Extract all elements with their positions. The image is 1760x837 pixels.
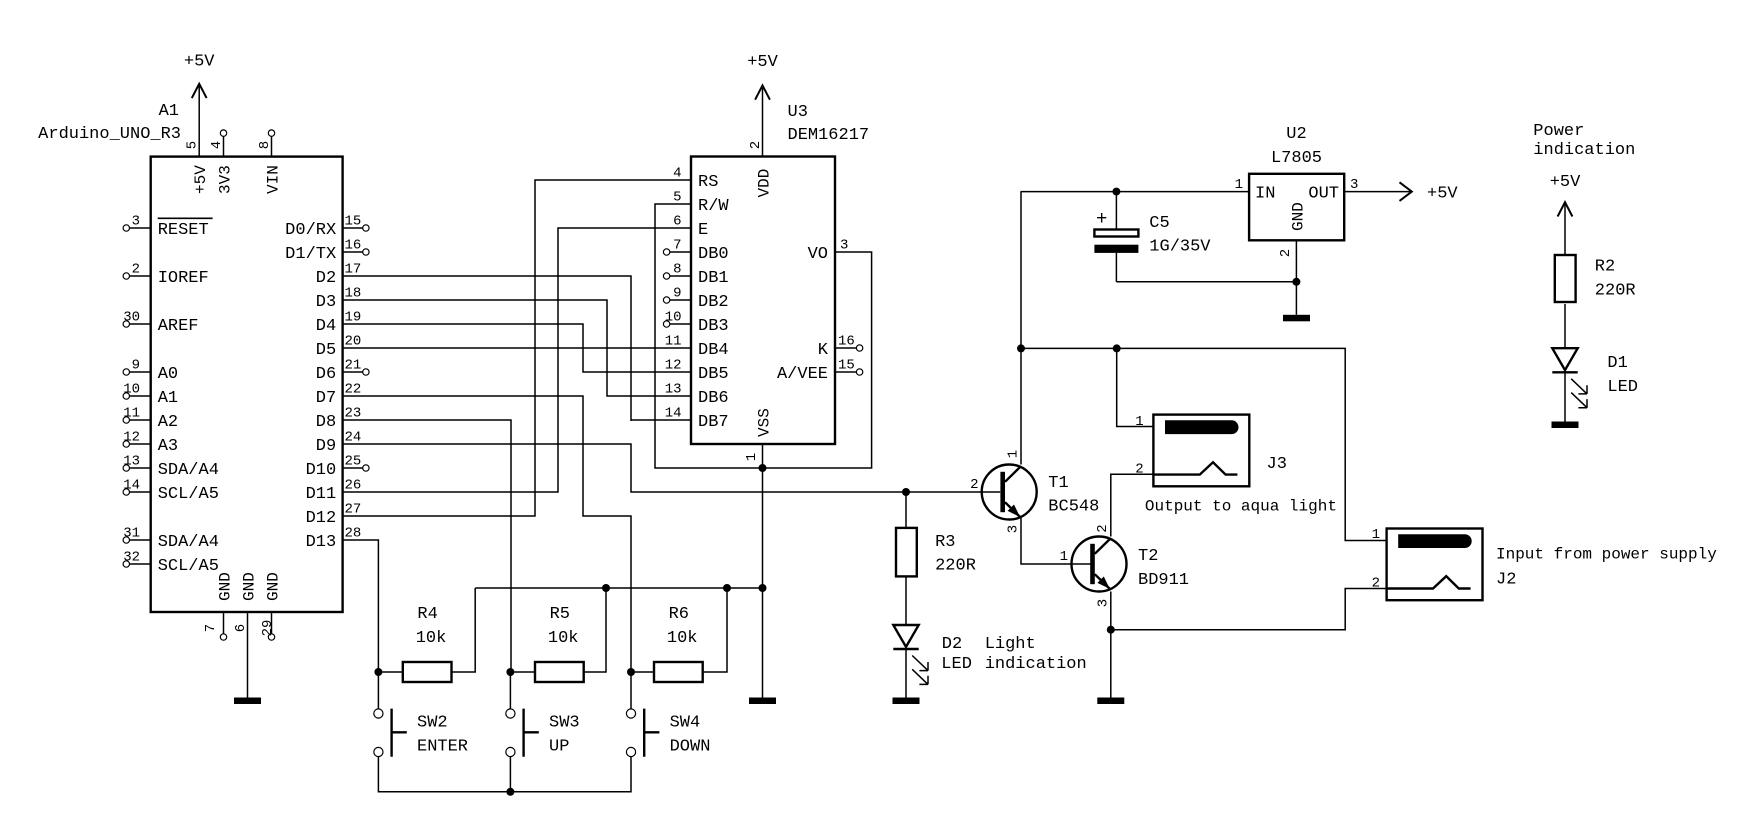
svg-text:D0/RX: D0/RX	[285, 221, 336, 240]
svg-text:8: 8	[673, 262, 681, 278]
resistor R3 220R	[896, 528, 976, 577]
junction switch common	[506, 788, 514, 796]
svg-text:GND: GND	[217, 572, 235, 601]
pin 5 +5V (top)	[185, 141, 211, 194]
U3 pin 16 K (right stub)	[818, 334, 863, 360]
svg-text:29: 29	[260, 620, 276, 637]
svg-text:D8: D8	[316, 413, 336, 432]
svg-text:T1: T1	[1048, 474, 1068, 493]
wire D12 to U3 RS	[343, 180, 691, 516]
svg-text:C5: C5	[1149, 214, 1169, 233]
svg-text:30: 30	[123, 310, 140, 326]
wire D2 to U3 DB7	[343, 276, 691, 421]
svg-text:9: 9	[132, 358, 140, 374]
wire D2 to ground	[905, 649, 907, 698]
U3 pin 10 DB3 (left)	[663, 310, 728, 336]
svg-text:16: 16	[838, 334, 855, 350]
A1 pin 26 D11 (right)	[306, 478, 362, 504]
resistor R4 10k	[403, 605, 452, 682]
U3 pin 6 E (left)	[673, 214, 708, 240]
svg-text:32: 32	[123, 550, 140, 566]
A1 pin 3 RESET (left stub)	[123, 214, 213, 240]
svg-text:A3: A3	[158, 437, 178, 456]
transistor T1 BC548	[982, 465, 1100, 520]
wire input line to J2 pin 1	[1021, 348, 1387, 540]
svg-text:10: 10	[123, 382, 140, 398]
ground symbol under U3 VSS	[749, 698, 776, 705]
svg-text:VO: VO	[808, 245, 828, 264]
svg-text:+: +	[1096, 208, 1107, 230]
wire input line to U2 IN	[1021, 191, 1250, 193]
wire U2 OUT to +5V	[1344, 191, 1411, 193]
svg-text:2: 2	[1095, 524, 1111, 532]
U3 pin 4 RS (left)	[673, 166, 718, 192]
wire U3 VSS to ground	[762, 444, 764, 698]
A1 pin 13 SDA/A4 (left stub)	[123, 454, 219, 480]
svg-text:14: 14	[123, 478, 140, 494]
wire R3 to D2	[905, 576, 907, 625]
junction D7/R6/SW4	[627, 668, 635, 676]
svg-text:BC548: BC548	[1048, 497, 1099, 516]
svg-text:A/VEE: A/VEE	[777, 365, 828, 384]
svg-text:6: 6	[233, 624, 249, 632]
svg-text:220R: 220R	[935, 556, 976, 575]
IC U3 DEM16217 body	[691, 157, 835, 445]
ground symbol under U2	[1283, 315, 1310, 322]
svg-text:L7805: L7805	[1271, 149, 1322, 168]
svg-text:3: 3	[1096, 599, 1112, 607]
junction D8/R5/SW3	[506, 668, 514, 676]
svg-text:7: 7	[203, 624, 219, 632]
ground symbol under T2	[1097, 698, 1124, 705]
+5V output arrow	[1400, 182, 1459, 203]
A1 pin 6 GND (bottom)	[233, 572, 259, 632]
junction U2 GND/C5	[1292, 278, 1300, 286]
svg-text:2: 2	[1278, 249, 1294, 257]
svg-text:VSS: VSS	[756, 408, 774, 437]
U3 pin 2 VDD (top)	[748, 141, 774, 198]
svg-text:10: 10	[665, 310, 682, 326]
svg-text:D6: D6	[316, 365, 336, 384]
switch SW4 DOWN	[626, 709, 710, 757]
junction J3 branch	[1113, 344, 1121, 352]
svg-text:IOREF: IOREF	[158, 269, 209, 288]
svg-text:8: 8	[257, 141, 273, 149]
svg-text:E: E	[698, 221, 708, 240]
svg-text:indication: indication	[1533, 141, 1635, 160]
svg-text:D9: D9	[316, 437, 336, 456]
wire D8 to R5/SW3	[343, 420, 511, 672]
wire D4 to U3 DB5	[343, 324, 691, 372]
svg-text:12: 12	[665, 358, 682, 374]
wire ground rail above resistors	[475, 587, 762, 589]
junction input line branch	[1017, 344, 1025, 352]
svg-text:22: 22	[345, 382, 362, 398]
U3 pin 13 DB6 (left)	[665, 382, 729, 408]
svg-text:J3: J3	[1267, 455, 1287, 474]
A1 pin 9 A0 (left stub)	[123, 358, 178, 384]
svg-text:SCL/A5: SCL/A5	[158, 485, 219, 504]
svg-text:1: 1	[1235, 177, 1243, 193]
svg-text:1: 1	[1135, 414, 1143, 430]
svg-text:19: 19	[345, 310, 362, 326]
svg-text:D12: D12	[306, 509, 337, 528]
wire SW2 top	[377, 672, 379, 709]
svg-text:K: K	[818, 341, 829, 360]
svg-text:17: 17	[345, 262, 362, 278]
resistor R5 10k	[535, 605, 584, 682]
U2 pin 1 IN	[1235, 177, 1276, 203]
svg-text:Arduino_UNO_R3: Arduino_UNO_R3	[38, 125, 181, 144]
A1 pin 22 D7 (right)	[316, 382, 362, 408]
U3 pin 11 DB4 (left)	[665, 334, 729, 360]
svg-text:5: 5	[185, 141, 201, 149]
A1 pin 7 GND (bottom stub)	[203, 572, 235, 640]
svg-text:13: 13	[123, 454, 140, 470]
ground symbol under A1	[234, 698, 261, 705]
U3 pin 8 DB1 (left)	[663, 262, 728, 288]
LED D2	[893, 625, 972, 684]
svg-text:+5V: +5V	[192, 165, 210, 194]
wire R2 to D1	[1564, 304, 1566, 348]
svg-text:Light: Light	[985, 635, 1036, 654]
U3 pin 1 VSS (bottom)	[744, 408, 774, 461]
wire T1 emitter to T2 base	[1021, 518, 1091, 564]
svg-text:1: 1	[744, 453, 760, 461]
svg-text:20: 20	[345, 334, 362, 350]
svg-text:R5: R5	[550, 605, 570, 624]
svg-text:D4: D4	[316, 317, 336, 336]
wire D9 to T1 base	[343, 444, 1001, 492]
svg-text:GND: GND	[241, 572, 259, 601]
wire J3 pin1 to input line	[1117, 348, 1154, 426]
wire SW3 top	[509, 672, 511, 709]
svg-text:OUT: OUT	[1308, 184, 1339, 203]
svg-text:D11: D11	[306, 485, 337, 504]
svg-text:R4: R4	[417, 605, 437, 624]
svg-text:U2: U2	[1286, 125, 1306, 144]
svg-text:A2: A2	[158, 413, 178, 432]
A1 pin 17 D2 (right)	[316, 262, 362, 288]
pin 8 VIN (top stub)	[257, 130, 283, 194]
U2 pin 2 GND	[1278, 202, 1308, 257]
wire C5 bottom to U2 GND	[1116, 281, 1296, 283]
svg-text:18: 18	[345, 286, 362, 302]
A1 pin 14 SCL/A5 (left stub)	[123, 478, 219, 504]
wire R6 right up to ground rail	[703, 588, 727, 672]
svg-text:13: 13	[665, 382, 682, 398]
svg-text:DEM16217: DEM16217	[788, 126, 870, 145]
U3 pin 7 DB0 (left)	[663, 238, 728, 264]
A1 pin 32 SCL/A5 (left stub)	[123, 550, 219, 576]
junction C5/input line	[1112, 188, 1120, 196]
svg-text:DB0: DB0	[698, 245, 729, 264]
svg-text:R3: R3	[935, 533, 955, 552]
svg-text:DB3: DB3	[698, 317, 729, 336]
svg-text:1G/35V: 1G/35V	[1149, 238, 1211, 257]
svg-text:SW3: SW3	[549, 713, 580, 732]
svg-text:3V3: 3V3	[217, 165, 235, 194]
wire R5 left	[510, 671, 535, 673]
svg-text:15: 15	[345, 214, 362, 230]
wire SW2 bottom to common	[378, 757, 510, 792]
svg-text:+5V: +5V	[747, 53, 778, 72]
svg-text:3: 3	[132, 214, 140, 230]
regulator U2 L7805 body	[1249, 174, 1344, 241]
wire T1 collector up to input line	[1020, 192, 1022, 465]
svg-text:25: 25	[345, 454, 362, 470]
U3 pin 14 DB7 (left)	[665, 406, 729, 432]
A1 pin 15 D0/RX (right)	[285, 214, 369, 240]
svg-text:R6: R6	[669, 605, 689, 624]
svg-text:11: 11	[665, 334, 682, 350]
svg-text:2: 2	[132, 262, 140, 278]
svg-text:RS: RS	[698, 173, 718, 192]
U2 pin 3 OUT	[1308, 177, 1358, 203]
svg-text:10k: 10k	[416, 629, 447, 648]
wire D11 to U3 E	[343, 228, 691, 492]
svg-text:D1: D1	[1607, 354, 1627, 373]
svg-text:220R: 220R	[1595, 281, 1636, 300]
svg-text:SCL/A5: SCL/A5	[158, 557, 219, 576]
svg-text:BD911: BD911	[1138, 571, 1189, 590]
svg-text:12: 12	[123, 430, 140, 446]
switch SW2 ENTER	[374, 709, 468, 757]
wire D1 to ground	[1564, 372, 1566, 421]
svg-text:DB6: DB6	[698, 389, 729, 408]
A1 pin 25 D10 (right)	[306, 454, 370, 480]
svg-text:LED: LED	[1607, 378, 1638, 397]
svg-text:6: 6	[673, 214, 681, 230]
A1 pin 28 D13 (right)	[306, 526, 362, 552]
ground symbol under D2	[893, 698, 920, 705]
svg-text:16: 16	[345, 238, 362, 254]
svg-text:15: 15	[838, 358, 855, 374]
svg-text:14: 14	[665, 406, 682, 422]
svg-text:D13: D13	[306, 533, 337, 552]
svg-text:3: 3	[1350, 177, 1358, 193]
IC A1 Arduino_UNO_R3 body	[151, 157, 343, 612]
svg-text:Input from power supply: Input from power supply	[1496, 545, 1717, 563]
svg-text:SW2: SW2	[417, 713, 448, 732]
U3 pin 3 VO (right)	[808, 238, 849, 264]
svg-text:A1: A1	[159, 102, 179, 121]
junction R5/ground rail	[602, 584, 610, 592]
wire R4 left	[378, 671, 402, 673]
wire U3 R/W and VO to ground net	[655, 204, 872, 468]
svg-text:RESET: RESET	[158, 221, 209, 240]
svg-text:D2: D2	[316, 269, 336, 288]
transistor T2 BD911	[1072, 537, 1190, 592]
svg-text:Output to aqua light: Output to aqua light	[1145, 498, 1337, 516]
connector J2 Input from power supply	[1387, 529, 1483, 601]
svg-text:+5V: +5V	[1427, 184, 1458, 203]
svg-text:indication: indication	[985, 655, 1087, 674]
svg-text:T2: T2	[1138, 547, 1158, 566]
svg-text:A1: A1	[158, 389, 178, 408]
A1 pin 29 GND (bottom stub)	[260, 572, 283, 640]
+5V power symbol at A1 pin 5	[184, 52, 215, 156]
svg-text:21: 21	[345, 358, 362, 374]
svg-text:D5: D5	[316, 341, 336, 360]
junction T2 emitter / J2 return	[1107, 626, 1115, 634]
wire D7 to R6/SW4	[343, 396, 631, 672]
svg-text:AREF: AREF	[158, 317, 199, 336]
svg-text:4: 4	[673, 166, 681, 182]
svg-text:28: 28	[345, 526, 362, 542]
svg-text:SW4: SW4	[670, 713, 701, 732]
wire T2 collector to J3 pin 2	[1111, 474, 1154, 536]
U3 pin 9 DB2 (left)	[663, 286, 728, 312]
svg-text:DB5: DB5	[698, 365, 729, 384]
svg-text:+5V: +5V	[184, 52, 215, 71]
svg-text:9: 9	[673, 286, 681, 302]
wire SW4 bottom to common	[510, 757, 631, 792]
junction VSS/ground net	[759, 464, 767, 472]
svg-text:D7: D7	[316, 389, 336, 408]
svg-text:DB1: DB1	[698, 269, 729, 288]
junction D9/R3/T1 base	[902, 488, 910, 496]
capacitor C5 1G/35V	[1094, 192, 1211, 282]
wire D3 to U3 DB6	[343, 300, 691, 396]
label Light indication	[985, 635, 1087, 674]
svg-text:+5V: +5V	[1550, 173, 1581, 192]
junction R6/ground rail	[723, 584, 731, 592]
svg-text:D2: D2	[942, 635, 962, 654]
svg-text:2: 2	[748, 141, 764, 149]
wire R5 right up to ground rail	[584, 588, 606, 672]
svg-text:10k: 10k	[548, 629, 579, 648]
+5V power symbol above R2	[1550, 173, 1581, 255]
U3 pin 12 DB5 (left)	[665, 358, 729, 384]
connector J3 Output to aqua light	[1153, 415, 1287, 487]
svg-text:U3: U3	[788, 103, 808, 122]
A1 pin 19 D4 (right)	[316, 310, 362, 336]
svg-text:VDD: VDD	[756, 169, 774, 198]
wire SW4 top	[630, 672, 632, 709]
resistor R6 10k	[654, 605, 703, 682]
svg-text:SDA/A4: SDA/A4	[158, 533, 219, 552]
switch SW3 UP	[506, 709, 580, 757]
A1 pin 18 D3 (right)	[316, 286, 362, 312]
svg-text:DB7: DB7	[698, 413, 729, 432]
svg-text:GND: GND	[265, 572, 283, 601]
A1 pin 30 AREF (left stub)	[123, 310, 198, 336]
A1 pin 24 D9 (right)	[316, 430, 362, 456]
U3 pin 15 A/VEE (right stub)	[777, 358, 863, 384]
svg-text:GND: GND	[1290, 202, 1308, 231]
A1 pin 23 D8 (right)	[316, 406, 362, 432]
A1 pin 31 SDA/A4 (left stub)	[123, 526, 219, 552]
A1 pin 21 D6 (right)	[316, 358, 369, 384]
svg-text:SDA/A4: SDA/A4	[158, 461, 219, 480]
svg-text:A0: A0	[158, 365, 178, 384]
svg-text:3: 3	[840, 238, 848, 254]
A1 pin 20 D5 (right)	[316, 334, 362, 360]
svg-text:23: 23	[345, 406, 362, 422]
svg-text:2: 2	[1135, 462, 1143, 478]
A1 pin 10 A1 (left stub)	[123, 382, 178, 408]
resistor R2 220R	[1555, 255, 1636, 302]
wire junction to R3	[905, 492, 907, 528]
label Power indication	[1533, 122, 1635, 160]
svg-text:3: 3	[1006, 525, 1022, 533]
A1 pin 2 IOREF (left stub)	[123, 262, 209, 288]
svg-text:24: 24	[345, 430, 362, 446]
svg-text:1: 1	[1006, 450, 1022, 458]
wire U2 GND pin down	[1295, 240, 1297, 314]
svg-text:1: 1	[1060, 549, 1068, 565]
svg-text:LED: LED	[941, 655, 972, 674]
wire D13 to R4/SW2	[343, 540, 379, 672]
A1 pin 16 D1/TX (right)	[285, 238, 369, 264]
wire A1 pin6 to ground	[247, 612, 249, 698]
svg-text:1: 1	[1372, 527, 1380, 543]
wire D5 to U3 DB4	[343, 347, 691, 349]
+5V power symbol at U3 pin 2 VDD	[747, 53, 778, 157]
svg-text:IN: IN	[1255, 184, 1275, 203]
svg-text:27: 27	[345, 502, 362, 518]
svg-text:D1/TX: D1/TX	[285, 245, 336, 264]
A1 pin 11 A2 (left stub)	[123, 406, 178, 432]
svg-text:D10: D10	[306, 461, 337, 480]
ground symbol under D1	[1552, 422, 1579, 429]
LED D1	[1552, 348, 1638, 408]
wire J2 pin 2 return to T2 emitter	[1111, 589, 1387, 630]
svg-text:26: 26	[345, 478, 362, 494]
svg-text:31: 31	[123, 526, 140, 542]
A1 pin 12 A3 (left stub)	[123, 430, 178, 456]
svg-text:4: 4	[209, 141, 225, 149]
U3 pin 5 R/W (left)	[673, 190, 729, 216]
wire R4 right up to ground rail	[452, 588, 476, 672]
wire T2 emitter down to ground	[1110, 592, 1112, 698]
svg-text:R/W: R/W	[698, 197, 729, 216]
wire R6 left	[631, 671, 654, 673]
svg-text:J2: J2	[1496, 571, 1516, 590]
svg-text:10k: 10k	[667, 629, 698, 648]
svg-text:Power: Power	[1533, 122, 1584, 141]
svg-text:UP: UP	[549, 737, 569, 756]
svg-text:DOWN: DOWN	[670, 737, 711, 756]
pin 4 3V3 (top stub)	[209, 130, 235, 194]
wire SW3 bottom to common	[509, 757, 511, 792]
A1 pin 27 D12 (right)	[306, 502, 362, 528]
junction ground/resistor net	[759, 584, 767, 592]
svg-text:ENTER: ENTER	[417, 737, 468, 756]
junction D13/R4/SW2	[374, 668, 382, 676]
svg-text:VIN: VIN	[265, 165, 283, 194]
svg-text:D3: D3	[316, 293, 336, 312]
svg-text:11: 11	[123, 406, 140, 422]
svg-text:7: 7	[673, 238, 681, 254]
svg-text:DB2: DB2	[698, 293, 729, 312]
svg-text:R2: R2	[1595, 257, 1615, 276]
svg-text:DB4: DB4	[698, 341, 729, 360]
svg-text:2: 2	[970, 477, 978, 493]
svg-text:5: 5	[673, 190, 681, 206]
